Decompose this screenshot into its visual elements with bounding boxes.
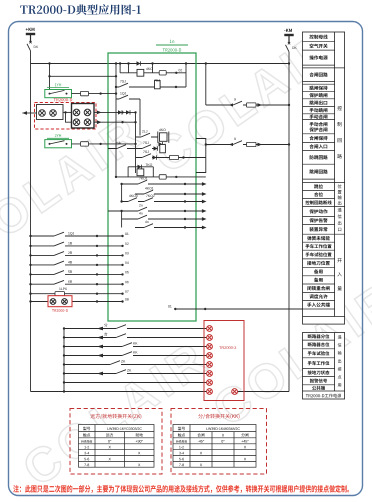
- ZK table grid: [79, 425, 155, 468]
- KK table title: [198, 414, 203, 419]
- remote table row line y384.8: [303, 384, 335, 386]
- vertical v2: [135, 112, 137, 173]
- wire y87: [116, 86, 186, 88]
- remote table row line y391.0: [303, 390, 345, 392]
- link on y176.9: [159, 175, 166, 179]
- relay cluster contact 2LJ: [136, 136, 158, 138]
- terminal B3: [73, 119, 80, 126]
- remote table row line y348.8: [303, 348, 335, 350]
- signal output wire 6: [135, 227, 205, 229]
- switch inside green box 2: [49, 143, 51, 145]
- signal table row line y182.5: [303, 182, 345, 184]
- terminal W2: [62, 299, 68, 305]
- vertical v5: [185, 64, 187, 88]
- group label position output: [338, 184, 342, 188]
- wire label KK: [133, 342, 135, 344]
- green terminal box 2: [45, 140, 72, 148]
- signal table row line y224.4: [303, 223, 335, 225]
- input wire 7: [31, 293, 123, 295]
- power supply row: [306, 394, 308, 397]
- red label under box: [52, 309, 54, 312]
- link on wire y75: [159, 71, 166, 75]
- signal table row line y84.2: [303, 83, 335, 85]
- CT assembly label TR2000-D: [54, 98, 56, 101]
- ZK table title: [90, 414, 95, 418]
- signal output wire 2: [135, 193, 205, 195]
- signal table row line y81.4: [303, 80, 335, 82]
- group label signal out: [338, 208, 342, 212]
- diode on loop: [138, 165, 142, 169]
- remote table row line y340.1: [303, 339, 335, 341]
- signal table row line y300.5: [303, 300, 335, 302]
- coil 7SJ: [155, 81, 161, 89]
- link 1LP1: [81, 91, 89, 95]
- KK table content: [178, 427, 181, 430]
- vertical joining rows 4-6: [121, 211, 123, 228]
- signal table row line y133.8: [303, 133, 335, 135]
- input wire 3: [31, 254, 123, 256]
- title TR2000-D typical application: [20, 6, 27, 14]
- signal table frame: [303, 32, 345, 324]
- red terminal 3: [207, 344, 213, 350]
- input wire 4: [31, 264, 123, 266]
- vertical x205.8: [205, 64, 207, 106]
- CT wire lower out: [94, 121, 136, 123]
- input wire 2: [31, 245, 123, 247]
- left bus wire: [30, 51, 32, 392]
- pin 02: [175, 72, 177, 74]
- terminal A2: [50, 110, 57, 117]
- anti-pump branch loop: [128, 64, 130, 73]
- signal output wire 1: [122, 183, 205, 185]
- remote group label: [338, 335, 342, 339]
- position wire 5: [64, 364, 207, 366]
- contact 7SJ: [119, 85, 129, 90]
- wire from green box2: [72, 143, 136, 145]
- red terminal 6: [207, 371, 213, 377]
- terminal B1: [73, 109, 80, 116]
- input wire 6: [31, 283, 123, 285]
- red terminal 5: [207, 362, 213, 368]
- ZK table content: [83, 427, 86, 430]
- signal table row line y179.1: [303, 178, 335, 180]
- wire y105: [206, 104, 289, 106]
- red terminal 2: [207, 335, 213, 341]
- vertical joining rows 1-3: [121, 184, 123, 202]
- terminal B4: [84, 119, 91, 126]
- wire y76 feed: [115, 75, 117, 77]
- feed wire to green box 1: [50, 76, 117, 89]
- signal table row line y267.3: [303, 266, 335, 268]
- signal table row line y284.0: [303, 283, 335, 285]
- wire y99 with contact 1QJ: [116, 98, 140, 100]
- wire y148.5 with contacts: [108, 148, 158, 150]
- position wire 4: [64, 355, 207, 357]
- signal table row line y142.5: [303, 142, 335, 144]
- signal output wire 3: [122, 201, 205, 203]
- signal table row line y113.8: [303, 113, 335, 115]
- wire y157.5: [136, 157, 206, 159]
- terminal B2: [84, 109, 91, 116]
- position wire 6: [64, 373, 207, 375]
- vertical from y99: [139, 99, 141, 136]
- CT terminal block A: [37, 105, 64, 120]
- remote signal table frame: [303, 333, 345, 400]
- group label control circuit: [337, 106, 341, 110]
- junction: [99, 92, 101, 94]
- remote table row line y376.6: [303, 376, 335, 378]
- junction: [99, 143, 101, 145]
- KK table grid: [173, 425, 256, 468]
- junction dots: [97, 111, 102, 115]
- terminal strip TR2000-3: [204, 321, 244, 401]
- wire label 分: [104, 324, 107, 327]
- wire label ZK: [127, 369, 129, 371]
- top rail wire: [31, 63, 290, 65]
- diode pair on CT wire: [118, 110, 122, 114]
- junction top rail right: [288, 62, 290, 64]
- busbar +KM: [26, 33, 35, 35]
- KK dashed outline: [171, 409, 267, 475]
- terminal A1: [39, 110, 46, 117]
- ZK dashed outline: [70, 409, 162, 475]
- signal output wire 5: [122, 218, 205, 220]
- input wire 5: [31, 273, 123, 275]
- link 1LP6 on input wire 7: [55, 292, 65, 296]
- group label input: [337, 258, 341, 262]
- CT terminal block B: [72, 104, 95, 129]
- U loop wire: [196, 139, 206, 173]
- right bus wire: [288, 52, 290, 392]
- pin dot y157.5: [182, 156, 184, 158]
- red terminal 4: [207, 353, 213, 359]
- position wire 7: [64, 382, 207, 384]
- signal table row line y292.5: [303, 292, 335, 294]
- signal table row line y98.8: [303, 98, 335, 100]
- collector vertical: [63, 329, 65, 392]
- diode under coil: [159, 142, 163, 146]
- signal table row line y206.5: [303, 206, 345, 208]
- signal table row line y242.2: [303, 241, 335, 243]
- signal table row line y150.5: [303, 150, 335, 152]
- terminal W1: [50, 299, 56, 305]
- CT dashed outline: [35, 103, 97, 130]
- knife switch 1DK: [30, 35, 32, 42]
- red terminal 8: [207, 389, 213, 395]
- input wire 8: [31, 301, 123, 303]
- note text: [13, 485, 349, 493]
- switch inside green box 1: [49, 93, 51, 95]
- coil loop bottom: [127, 167, 129, 177]
- CT wire upper out: [94, 111, 136, 113]
- input wire 1: [31, 235, 123, 237]
- wire label 合: [104, 332, 107, 335]
- wire label ZK: [121, 360, 123, 362]
- bottom rail wire: [31, 391, 207, 393]
- signal table row line y250.2: [303, 249, 335, 251]
- busbar -KM: [284, 34, 293, 36]
- diode y148.5: [154, 146, 158, 150]
- terminal block label 1YH: [55, 83, 57, 86]
- red terminal 7: [207, 380, 213, 386]
- signal table row line y275.8: [303, 275, 335, 277]
- right bus bottom wire: [238, 391, 289, 393]
- signal table row line y164.2: [303, 163, 335, 165]
- signal table row line y258.9: [303, 258, 335, 260]
- wire y146: [206, 144, 289, 146]
- feed vertical x120: [119, 64, 121, 73]
- wire blockA to blockB: [63, 111, 72, 113]
- coil 7KO: [137, 169, 144, 176]
- green terminal box 1: [45, 90, 72, 98]
- remote table row line y357.8: [303, 357, 335, 359]
- decorative watermark: [0, 115, 143, 261]
- signal table row line y309.0: [303, 308, 335, 310]
- terminal block label 2YH: [55, 134, 57, 137]
- red terminal box on input wire 8: [48, 296, 72, 307]
- diode y157.5: [153, 155, 157, 159]
- pin dot y87: [175, 86, 177, 88]
- device label 1n TR2000-D: [170, 40, 172, 43]
- protection device outline TR2000-D: [108, 53, 196, 321]
- signal table row line y198.5: [303, 198, 335, 200]
- diode 4KO: [137, 61, 141, 65]
- wire y176.9 bottom of cluster: [116, 176, 206, 178]
- coil 4KO: [137, 69, 144, 76]
- red terminal 1: [207, 326, 213, 332]
- knife switch 2DK: [288, 36, 290, 43]
- signal output wire 4: [108, 210, 205, 212]
- coil 7SJ2: [160, 145, 166, 153]
- wire y309 power: [175, 308, 302, 310]
- vertical v1 extension: [115, 149, 117, 177]
- position wire 3: [64, 346, 207, 348]
- signal table row line y216.4: [303, 215, 335, 217]
- signal table row line y234.2: [303, 233, 345, 235]
- signal table row line y190.5: [303, 190, 335, 192]
- wire y72.8: [120, 72, 186, 74]
- L-bend to lower terminals: [66, 112, 72, 122]
- internal vertical rail v1: [115, 64, 117, 149]
- position wire 1: [64, 328, 207, 330]
- signal table row line y41.7: [303, 41, 335, 43]
- feed drop from rail: [49, 64, 51, 77]
- red terminal bottom-right: [232, 389, 238, 395]
- link 2LP1: [81, 142, 89, 146]
- signal table row line y67.9: [303, 67, 345, 69]
- CT wire upper: [22, 112, 36, 114]
- signal table row line y316.5: [303, 316, 345, 318]
- position wire 2: [64, 337, 207, 339]
- remote table row line y368.4: [303, 367, 335, 369]
- coil 4KO with side bars: [160, 133, 168, 142]
- link 4LP: [170, 155, 179, 159]
- wire from green box1: [72, 93, 117, 95]
- signal table row line y50.1: [303, 49, 335, 51]
- wire label KK: [133, 351, 135, 353]
- signal table row line y65.1: [303, 64, 335, 66]
- signal table row line y106.6: [303, 106, 335, 108]
- signal table row line y119.6: [303, 119, 335, 121]
- signal table row line y91.7: [303, 91, 335, 93]
